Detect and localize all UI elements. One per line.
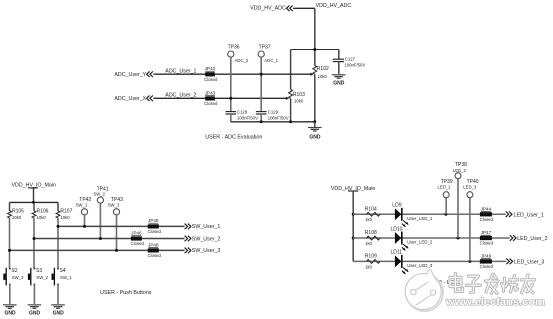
svg-text:ADC_User_Y: ADC_User_Y (114, 72, 146, 78)
svg-text:USER - Push Buttons: USER - Push Buttons (100, 290, 152, 296)
svg-text:TP36: TP36 (228, 45, 240, 51)
svg-text:10k0: 10k0 (12, 215, 22, 220)
wire SW_User_2 (34, 237, 185, 240)
junction R102 / GND rail (313, 120, 316, 123)
resistor R102 (313, 66, 329, 79)
junction TP39 / LED_User_1 (444, 213, 447, 216)
svg-text:Closed: Closed (131, 241, 145, 246)
svg-text:VDD_HV_ADC: VDD_HV_ADC (250, 5, 286, 11)
wire LED_User_3 (353, 260, 506, 263)
svg-text:LED_User_3: LED_User_3 (514, 260, 544, 266)
jumper JP48 (148, 242, 162, 258)
svg-text:LD10: LD10 (391, 226, 403, 232)
junction power / LED_User_1 (352, 213, 355, 216)
power flag VDD_HV_ADC left connector (250, 5, 293, 11)
svg-text:1k0: 1k0 (365, 264, 372, 269)
wire TP36 vertical (229, 57, 232, 111)
test point TP39 (438, 179, 453, 214)
svg-text:Closed: Closed (480, 264, 494, 269)
svg-text:GND: GND (29, 311, 41, 317)
svg-text:ADC_User_X: ADC_User_X (114, 96, 146, 102)
jumper JP45 (148, 218, 162, 234)
svg-text:TP39: TP39 (441, 179, 453, 185)
test point TP37 (258, 45, 279, 63)
svg-text:Closed: Closed (148, 229, 162, 234)
LED LD10 (391, 226, 409, 251)
svg-text:SW_3: SW_3 (12, 275, 24, 280)
resistor R108 (365, 230, 380, 246)
power flag VDD_HV_IO_Main LED section (331, 186, 376, 192)
svg-text:LED_User_1: LED_User_1 (514, 212, 544, 218)
svg-text:ADC_User_2: ADC_User_2 (165, 93, 196, 99)
capacitor C129 (256, 109, 289, 121)
wire LED_User_1 (353, 213, 506, 216)
power flag VDD_HV_IO_Main (12, 182, 57, 202)
svg-text:10k0: 10k0 (294, 99, 304, 104)
svg-text:GND: GND (309, 134, 321, 140)
junction TP37 / ADC_User_1 (260, 73, 263, 76)
junction R107 / SW_User_1 (57, 225, 60, 228)
port LED_User_2 (510, 235, 548, 242)
svg-text:LED_3: LED_3 (463, 185, 477, 190)
svg-text:C127: C127 (345, 56, 356, 61)
jumper JP46 (131, 230, 145, 246)
watermark chinese characters (452, 274, 459, 289)
switch S3 (28, 268, 49, 286)
jumper JP44 (480, 207, 494, 222)
svg-text:User_LED_2: User_LED_2 (407, 240, 433, 245)
svg-text:S4: S4 (60, 268, 66, 274)
junction C129 / GND rail (260, 120, 263, 123)
junction power / LED_User_2 (352, 237, 355, 240)
svg-text:ADC_User_1: ADC_User_1 (165, 68, 196, 74)
svg-text:R109: R109 (365, 254, 377, 260)
capacitor C128 (226, 109, 258, 121)
svg-text:10k0: 10k0 (37, 215, 47, 220)
svg-text:TP37: TP37 (259, 45, 271, 51)
wire pullup rail (10, 201, 59, 204)
ground main ADC (308, 122, 322, 141)
svg-text:R105: R105 (12, 208, 24, 214)
svg-text:JP44: JP44 (481, 207, 492, 212)
resistor R107 (56, 202, 72, 219)
svg-text:User_LED_3: User_LED_3 (407, 263, 433, 268)
svg-text:1k0: 1k0 (365, 241, 372, 246)
test point TP42 (76, 197, 92, 227)
junction TP38 / LED_User_2 (457, 237, 460, 240)
junction TP36 / ADC_User_2 (229, 97, 232, 100)
resistor R106 (32, 202, 49, 219)
svg-text:ADC_1: ADC_1 (264, 58, 278, 63)
svg-text:SW_User_2: SW_User_2 (192, 236, 221, 242)
LED LD9 (392, 203, 408, 228)
svg-text:JP42: JP42 (205, 66, 216, 71)
ground under C127 (332, 74, 346, 86)
port ADC_User_Y (114, 71, 152, 78)
svg-text:www.elecfans.com: www.elecfans.com (445, 297, 545, 308)
wire SW_User_3 (10, 249, 185, 252)
svg-text:JP48: JP48 (148, 242, 159, 247)
svg-text:USER - ADC Evaluation: USER - ADC Evaluation (205, 134, 262, 140)
junction R106 / SW_User_2 (33, 237, 36, 240)
wire bottom GND rail (231, 120, 315, 123)
svg-text:Closed: Closed (148, 253, 162, 258)
svg-text:TP38: TP38 (455, 162, 467, 168)
junction TP42 / SW_User_1 (83, 225, 86, 228)
test point TP40 (463, 179, 478, 261)
svg-text:SW_User_1: SW_User_1 (192, 224, 221, 230)
port ADC_User_X (114, 96, 152, 103)
junction TP41 / SW_User_2 (99, 237, 102, 240)
svg-text:JP49: JP49 (481, 254, 492, 259)
svg-text:S2: S2 (11, 268, 17, 274)
port SW_User_3 (185, 248, 221, 255)
svg-text:R108: R108 (365, 230, 377, 236)
test point TP41 (93, 187, 108, 239)
svg-text:LD9: LD9 (392, 203, 401, 209)
svg-text:TP43: TP43 (111, 197, 123, 203)
test point TP36 (228, 45, 249, 63)
svg-text:LED_2: LED_2 (453, 168, 467, 173)
watermark logo circle (405, 269, 443, 311)
wire VDD_HV_ADC horizontal (293, 7, 315, 10)
svg-text:JP46: JP46 (131, 230, 142, 235)
svg-text:C128: C128 (237, 109, 248, 114)
junction main vertical / top rail (313, 48, 316, 51)
wire R106 to switch S3 (32, 218, 35, 268)
wire R107 to switch S4 (56, 218, 59, 268)
svg-text:GND: GND (333, 81, 345, 87)
svg-text:JP45: JP45 (148, 218, 159, 223)
jumper JP42 (204, 66, 218, 82)
svg-text:SW_2: SW_2 (36, 275, 48, 280)
junction TP40 / LED_User_3 (468, 260, 471, 263)
svg-text:SW_1: SW_1 (76, 202, 88, 207)
wire S3 to GND (33, 285, 36, 305)
svg-text:R107: R107 (60, 208, 72, 214)
capacitor C127 (333, 50, 366, 74)
junction R105 / SW_User_3 (8, 249, 11, 252)
svg-text:S3: S3 (36, 268, 42, 274)
port SW_User_2 (185, 236, 221, 243)
resistor R109 (365, 254, 380, 270)
svg-text:SW_1: SW_1 (60, 275, 72, 280)
svg-text:ADC_2: ADC_2 (235, 58, 249, 63)
svg-text:R103: R103 (293, 92, 305, 98)
ground GND under S3 (28, 304, 42, 316)
svg-text:Closed: Closed (204, 77, 218, 82)
ground GND under S2 (3, 304, 17, 316)
wire S4 to GND (56, 285, 59, 305)
switch S2 (3, 268, 24, 286)
port LED_User_3 (506, 259, 544, 266)
svg-text:10k0: 10k0 (318, 74, 328, 79)
resistor R105 (8, 202, 25, 219)
wire TP37 vertical (260, 57, 263, 111)
switch S4 (52, 268, 73, 286)
svg-text:TP40: TP40 (467, 179, 479, 185)
ground GND under S4 (51, 304, 65, 316)
jumper JP47 (480, 230, 494, 245)
wire top rail horizontal (291, 48, 339, 50)
svg-text:100nF/50V: 100nF/50V (237, 115, 258, 120)
svg-text:10k0: 10k0 (60, 215, 70, 220)
jumper JP43 (204, 90, 218, 106)
test point TP38 (453, 162, 467, 238)
svg-text:R106: R106 (37, 208, 49, 214)
wire LED_User_2 (353, 237, 510, 240)
svg-text:GND: GND (53, 311, 65, 317)
svg-text:VDD_HV_ADC: VDD_HV_ADC (316, 3, 352, 9)
svg-text:R104: R104 (365, 207, 377, 213)
svg-text:Closed: Closed (204, 101, 218, 106)
svg-text:JP47: JP47 (481, 230, 492, 235)
junction power / rail (32, 201, 35, 204)
svg-text:1k0: 1k0 (365, 217, 372, 222)
wire ADC_User_1 (153, 73, 313, 76)
svg-text:User_LED_1: User_LED_1 (407, 216, 433, 221)
wire R105 to switch S2 (8, 218, 11, 268)
svg-text:Closed: Closed (480, 241, 494, 246)
svg-text:Closed: Closed (480, 217, 494, 222)
junction R103 / GND rail (289, 120, 292, 123)
LED LD11 (391, 250, 409, 275)
resistor R103 (289, 50, 305, 122)
svg-text:100nF/50V: 100nF/50V (268, 115, 289, 120)
svg-text:SW_User_3: SW_User_3 (192, 248, 221, 254)
svg-text:SW_2: SW_2 (93, 192, 105, 197)
svg-text:TP42: TP42 (79, 197, 91, 203)
junction TP43 / SW_User_3 (115, 249, 118, 252)
wire S2 to GND (8, 285, 11, 305)
port SW_User_1 (185, 224, 221, 231)
svg-text:LED_1: LED_1 (438, 185, 452, 190)
svg-text:LD11: LD11 (391, 250, 403, 256)
svg-text:R102: R102 (317, 66, 329, 72)
port LED_User_1 (506, 212, 544, 219)
svg-text:GND: GND (4, 311, 16, 317)
test point TP43 (108, 197, 123, 251)
svg-text:SW_3: SW_3 (108, 202, 120, 207)
svg-text:100nF/50V: 100nF/50V (344, 63, 365, 68)
svg-text:C129: C129 (268, 109, 279, 114)
wire main vertical VDD_HV_ADC to GND rail (313, 8, 316, 122)
wire SW_User_1 (58, 225, 185, 228)
wire ADC_User_2 (153, 97, 289, 100)
jumper JP49 (480, 254, 494, 269)
svg-text:JP43: JP43 (205, 90, 216, 95)
svg-text:LED_User_2: LED_User_2 (517, 236, 547, 242)
resistor R104 (365, 207, 380, 223)
wire LED power vertical (352, 191, 355, 261)
